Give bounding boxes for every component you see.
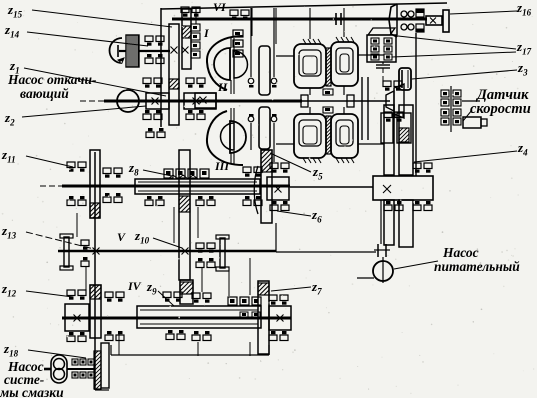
svg-text:скорости: скорости: [470, 101, 531, 117]
svg-text:VI: VI: [213, 0, 227, 14]
svg-text:вающий: вающий: [20, 86, 69, 101]
svg-text:IV: IV: [127, 279, 142, 293]
svg-text:питательный: питательный: [434, 259, 520, 274]
svg-text:V: V: [117, 230, 126, 244]
svg-text:II: II: [217, 80, 229, 94]
svg-text:Насос откачи-: Насос откачи-: [7, 72, 97, 87]
svg-text:мы смазки: мы смазки: [0, 385, 64, 398]
svg-text:III: III: [214, 159, 230, 173]
svg-text:Насос: Насос: [442, 245, 479, 260]
